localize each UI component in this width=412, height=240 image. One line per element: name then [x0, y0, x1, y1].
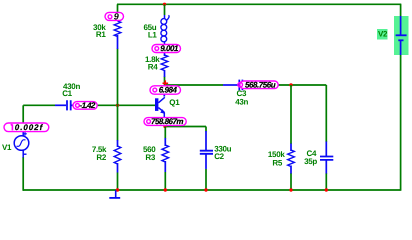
wire V2 top drop [400, 4, 402, 16]
node collector cross marker [163, 80, 169, 86]
transistor Q1 [155, 98, 158, 111]
wire top rail left drop to R1 [117, 4, 119, 14]
wire V1 top to C1 corner [22, 105, 24, 124]
wire collector up from Q1 [163, 85, 165, 97]
inductor L1 [164, 15, 166, 19]
wire V1 bottom to rail [22, 157, 24, 191]
voltage source V1 [14, 136, 29, 151]
node junction rail C4 [325, 188, 328, 191]
resistor R4 body [161, 55, 168, 71]
capacitor C3 leads [223, 84, 238, 86]
wire R4 bottom to collector node [164, 77, 166, 86]
svg-text:V1: V1 [2, 143, 12, 152]
capacitor C4 plates [320, 157, 333, 160]
resistor R3 body [162, 145, 169, 162]
svg-text:758.867m: 758.867m [151, 117, 183, 126]
svg-text:C2: C2 [214, 152, 224, 161]
wire R3 bottom to rail [164, 172, 166, 190]
svg-text:Q1: Q1 [169, 98, 180, 107]
svg-text:0.002f: 0.002f [15, 123, 44, 132]
wire top supply rail [117, 3, 401, 5]
node junction emitter [163, 125, 166, 128]
svg-text:9: 9 [114, 12, 119, 22]
meter bubble source 10.002f [4, 123, 49, 132]
wire bottom ground rail [23, 189, 401, 191]
svg-text:-1.42: -1.42 [80, 101, 96, 110]
wire R2 bottom to rail [117, 172, 119, 190]
svg-text:9.001: 9.001 [160, 44, 179, 53]
meter bubble base -1.42 [73, 102, 97, 110]
meter bubble L1/R4 node 9.001 [152, 45, 181, 53]
meter bubble supply node 9 [105, 12, 124, 20]
node junction ground rail R2 [116, 188, 119, 191]
resistor R1 body [114, 21, 121, 37]
wire C2 bottom to rail [205, 169, 207, 190]
resistor R5 body [288, 150, 295, 167]
wire output to R5/C4 [278, 84, 326, 86]
wire corner to C1 [23, 104, 55, 106]
node junction base divider [116, 104, 119, 107]
resistor R3 leads [164, 138, 166, 146]
ground symbol [115, 190, 117, 197]
wire R5 down [290, 85, 292, 144]
wire top rail drop to L1 [164, 4, 166, 15]
meter bubble emitter 758.867m [144, 118, 186, 126]
wire C1/bubble to base junction [97, 104, 157, 106]
node junction rail C2 [204, 188, 207, 191]
capacitor C2 leads [205, 131, 207, 150]
svg-text:V2: V2 [378, 29, 388, 38]
wire V2 bottom to ground rail [400, 55, 402, 191]
svg-text:35p: 35p [304, 157, 317, 166]
capacitor C3 plates [239, 80, 242, 91]
svg-text:C1: C1 [62, 89, 72, 98]
node junction output R5 [289, 83, 292, 86]
capacitor C4 leads [325, 142, 327, 157]
svg-text:R2: R2 [96, 153, 106, 162]
resistor R2 body [114, 146, 121, 164]
meter bubble collector 6.984 [150, 86, 181, 94]
svg-text:R3: R3 [145, 153, 155, 162]
svg-text:43n: 43n [235, 98, 248, 107]
resistor R2 leads [117, 140, 119, 147]
wire collector node to C3 [165, 84, 224, 86]
node junction rail R5 [289, 188, 292, 191]
wire C2 corner down [205, 127, 207, 132]
wire C4 corner down [325, 85, 327, 142]
wire R5 bottom to rail [290, 173, 292, 190]
node junction rail R3 [164, 188, 167, 191]
wire C4 bottom to rail [325, 173, 327, 190]
svg-text:R1: R1 [96, 30, 106, 39]
svg-text:R4: R4 [148, 63, 158, 72]
capacitor C2 plates [200, 151, 213, 154]
capacitor C1 plates [67, 100, 71, 110]
resistor R4 leads [164, 52, 166, 56]
node junction top rail / L1 [163, 3, 166, 6]
svg-text:6.984: 6.984 [159, 86, 178, 95]
meter bubble output 568.756u [240, 81, 278, 89]
svg-text:R5: R5 [272, 159, 282, 168]
wire emitter node horizontal to C2 [165, 126, 206, 128]
battery V2 [394, 16, 409, 55]
svg-text:L1: L1 [148, 30, 158, 39]
svg-text:568.756u: 568.756u [245, 80, 276, 89]
resistor R1 leads [117, 35, 119, 49]
wire emitter R3 down [164, 127, 166, 139]
capacitor C1 leads [55, 104, 66, 106]
resistor R5 leads [290, 144, 292, 152]
wire base junction down to R2 [117, 105, 119, 140]
wire R1 bottom to base junction [117, 49, 119, 106]
